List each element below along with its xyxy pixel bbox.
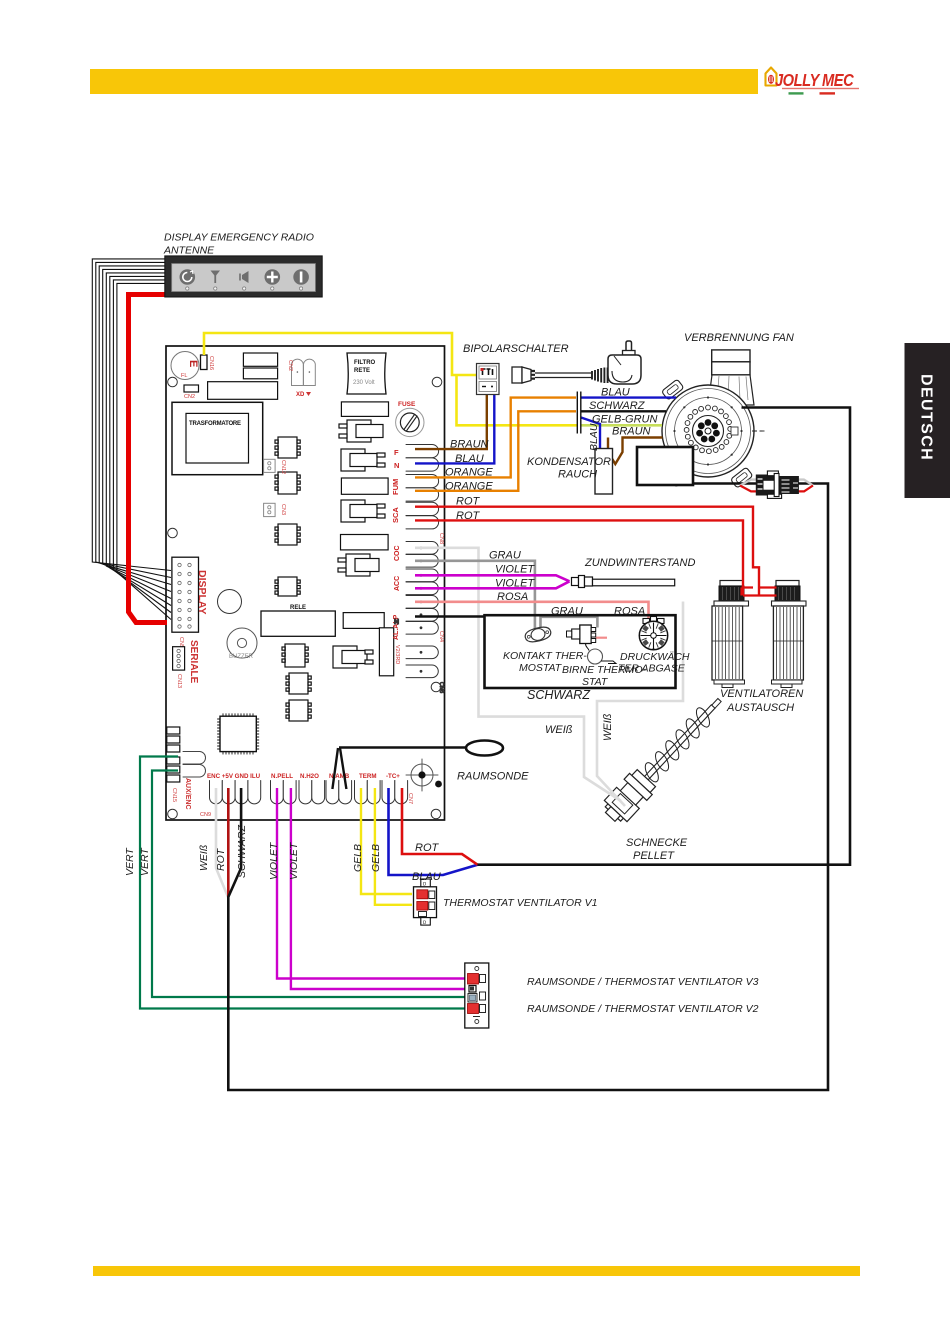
- svg-text:THERMOSTAT VENTILATOR V1: THERMOSTAT VENTILATOR V1: [443, 897, 597, 909]
- IC block 2: [243, 368, 277, 379]
- svg-text:KONDENSATOR: KONDENSATOR: [527, 456, 611, 468]
- schuko plug pin: [626, 341, 632, 353]
- labels COC ACC ALALP: [393, 545, 444, 642]
- wire raumsonde chevron: [332, 748, 346, 789]
- svg-text:SCHNECKE: SCHNECKE: [626, 837, 688, 849]
- svg-text:GELB: GELB: [370, 844, 382, 872]
- svg-text:BLAU: BLAU: [412, 871, 441, 883]
- svg-text:BLAU: BLAU: [455, 453, 484, 465]
- svg-text:VIOLET: VIOLET: [495, 564, 535, 576]
- combustion fan body: [661, 350, 766, 488]
- svg-text:BLAU: BLAU: [588, 423, 600, 451]
- svg-text:N: N: [394, 461, 399, 470]
- svg-text:CN6: CN6: [438, 682, 444, 693]
- svg-text:VERT: VERT: [124, 847, 136, 876]
- relay RL2: [341, 478, 388, 494]
- svg-text:AUX/ENC: AUX/ENC: [184, 778, 191, 810]
- connector CN9 terminal labels: [200, 773, 413, 818]
- relay RL5 box: [261, 611, 335, 636]
- panel button antenna: [211, 271, 221, 291]
- svg-text:VIOLET: VIOLET: [495, 577, 535, 589]
- svg-text:BUZZER: BUZZER: [229, 654, 254, 660]
- thermostat BIRNE: [567, 625, 617, 664]
- svg-text:N.AMB: N.AMB: [329, 773, 350, 780]
- igniter ZUNDWINTERSTAND: [572, 576, 675, 588]
- EXTERNAL COMPONENTS DRAWN UNDER WIRES: [599, 350, 806, 828]
- wire rot tc: [402, 788, 478, 865]
- room probe RAUMSONDE: [466, 741, 503, 756]
- svg-text:DRUCKWÄCH: DRUCKWÄCH: [620, 651, 690, 663]
- svg-text:CN12: CN12: [280, 460, 286, 474]
- svg-text:ZUNDWINTERSTAND: ZUNDWINTERSTAND: [584, 557, 695, 569]
- wire schwarz loop to frame: [228, 484, 828, 1091]
- svg-text:RAUCH: RAUCH: [558, 469, 597, 481]
- auger flange: [632, 770, 656, 793]
- wire earth yellow to fan: [457, 375, 578, 425]
- wire weiss 2 druckwachter to auger: [597, 602, 683, 807]
- fan bolt dots: [673, 396, 742, 465]
- fan terminal box: [637, 447, 693, 485]
- svg-text:COC: COC: [394, 545, 401, 561]
- connector CN14 aux sockets: [183, 752, 206, 810]
- svg-text:TRASFORMATORE: TRASFORMATORE: [189, 421, 241, 427]
- svg-text:BLAU: BLAU: [601, 387, 630, 399]
- svg-text:RAUMSONDE / THERMOSTAT VENTILA: RAUMSONDE / THERMOSTAT VENTILATOR V3: [527, 976, 759, 988]
- svg-text:ROSA: ROSA: [614, 606, 645, 618]
- optocoupler U8: [275, 577, 300, 596]
- svg-text:CN15: CN15: [171, 788, 177, 802]
- connector CN3: [264, 503, 286, 516]
- optocoupler U4: [275, 524, 300, 545]
- schuko plug body: [608, 355, 641, 384]
- svg-text:BRAUN: BRAUN: [450, 439, 489, 451]
- svg-text:GELB: GELB: [352, 844, 364, 872]
- footer yellow bar: [93, 1266, 860, 1276]
- svg-text:DEUTSCH: DEUTSCH: [918, 374, 935, 461]
- capacitor KONDENSATOR RAUCH: [595, 449, 613, 495]
- MAIN BOARD: [166, 346, 445, 820]
- mounting hole mid-left: [168, 528, 178, 538]
- svg-text:SCHWARZ: SCHWARZ: [589, 400, 646, 412]
- svg-text:XD: XD: [296, 392, 305, 398]
- logo JOLLY MEC: [766, 68, 860, 95]
- wire display power red: [129, 295, 168, 623]
- svg-text:ROT: ROT: [415, 842, 440, 854]
- connector CN8 right pins F N: [406, 445, 439, 529]
- svg-text:CN2: CN2: [287, 360, 293, 371]
- svg-text:N: N: [394, 619, 399, 626]
- logo house icon: [766, 68, 777, 86]
- svg-text:VIOLET: VIOLET: [268, 841, 280, 880]
- svg-text:ORANGE: ORANGE: [445, 480, 493, 492]
- wire rot SCA 2: [415, 520, 743, 595]
- mains cord inlet: [512, 341, 641, 384]
- svg-text:FUM: FUM: [391, 479, 400, 495]
- connector J5: [333, 646, 373, 668]
- svg-text:CN13: CN13: [176, 674, 182, 688]
- connector J1: [339, 420, 383, 442]
- svg-text:VIOLET: VIOLET: [288, 841, 300, 880]
- svg-text:ROT: ROT: [215, 847, 227, 871]
- panel button clock: [180, 269, 196, 290]
- fan volute circles: [662, 385, 754, 477]
- svg-text:WEIß: WEIß: [198, 845, 210, 871]
- mounting hole bottom-left: [168, 809, 178, 819]
- wire braun fan stub: [608, 438, 663, 465]
- svg-text:KONTAKT THER-: KONTAKT THER-: [503, 650, 587, 662]
- svg-text:FILTRO: FILTRO: [354, 360, 376, 366]
- mounting hole bottom-right: [431, 809, 441, 819]
- fan mounting tab bottom-left: [661, 466, 684, 487]
- wire vert 2: [152, 771, 466, 998]
- wire braun switch to board: [415, 395, 487, 450]
- svg-text:V2/3RD: V2/3RD: [394, 645, 400, 664]
- connector CN10: [264, 459, 286, 474]
- thermocouple trimmer CN7: [406, 759, 442, 791]
- wire schwarz box to connector: [693, 482, 756, 485]
- svg-text:VERT: VERT: [139, 847, 151, 876]
- wire blau switch to board: [415, 395, 494, 464]
- exchange fan motor M1: [712, 581, 749, 688]
- wire gelb-grun fan: [581, 424, 663, 427]
- svg-text:DISPLAY EMERGENCY RADIO: DISPLAY EMERGENCY RADIO: [164, 232, 314, 244]
- wire schwarz box stub: [415, 615, 485, 618]
- IC block 1: [243, 353, 277, 366]
- panel button plus: [265, 269, 281, 290]
- svg-text:WEIß: WEIß: [545, 724, 573, 736]
- fan axis tick: [752, 430, 766, 432]
- control board outline: [166, 346, 445, 820]
- wire orange 1: [415, 398, 576, 478]
- fan scroll housing: [708, 375, 754, 405]
- optocoupler U5: [282, 644, 308, 667]
- svg-text:CN3: CN3: [280, 504, 286, 515]
- svg-text:CN16: CN16: [208, 356, 214, 370]
- svg-text:CN9: CN9: [200, 812, 211, 818]
- microcontroller U1: [218, 714, 259, 754]
- svg-text:DISPLAY: DISPLAY: [196, 570, 208, 615]
- wire mains yellow from CN16: [204, 333, 477, 375]
- panel button speaker: [240, 271, 249, 290]
- auger spiral: [638, 703, 717, 786]
- relay RL4: [343, 613, 384, 629]
- terminal RAUMSONDE V3 V2: [465, 963, 489, 1028]
- connector J4: [338, 554, 379, 576]
- wire rot tail: [227, 788, 230, 897]
- svg-text:ROT: ROT: [456, 496, 481, 508]
- svg-text:TERM: TERM: [359, 773, 377, 780]
- panel button power: [293, 269, 309, 290]
- svg-text:GRAU: GRAU: [551, 606, 583, 618]
- svg-text:ENC +5V GND ILU: ENC +5V GND ILU: [207, 773, 261, 780]
- svg-text:N.H2O: N.H2O: [300, 773, 319, 780]
- transformer TRASFORMATORE: [172, 402, 263, 474]
- wire violet V3 2: [291, 788, 466, 989]
- svg-text:-TC+: -TC+: [386, 773, 400, 780]
- wire orange 2: [415, 411, 576, 491]
- regulator V2/3RD: [379, 628, 400, 676]
- connector CN13 seriale: [173, 640, 199, 688]
- wire grau to kontakt: [415, 561, 535, 629]
- wire rosa birne stub: [596, 637, 608, 639]
- svg-text:MOSTAT: MOSTAT: [519, 662, 563, 674]
- logo flag red: [820, 92, 836, 94]
- fan bearing ring: [684, 405, 732, 454]
- svg-text:N.PELL: N.PELL: [271, 773, 293, 780]
- svg-text:F: F: [394, 448, 399, 457]
- svg-text:RETE: RETE: [354, 368, 370, 374]
- relay RL3: [341, 535, 389, 550]
- connector CN15 aux pins: [167, 727, 180, 802]
- svg-text:FL: FL: [181, 373, 187, 379]
- DEUTSCH side tab: [905, 343, 950, 498]
- svg-text:230 Volt: 230 Volt: [353, 380, 375, 386]
- svg-text:BRAUN: BRAUN: [612, 426, 651, 438]
- connector CN6 right pins N: [394, 619, 444, 693]
- mounting hole mid-right: [431, 682, 441, 692]
- schwarz wire frame box: [485, 615, 676, 688]
- svg-text:ROT: ROT: [456, 510, 481, 522]
- optocoupler U3: [275, 472, 300, 494]
- display panel: [165, 256, 322, 297]
- wire rot motor terminals: [742, 588, 777, 596]
- mounting hole top-left: [168, 377, 178, 387]
- svg-text:PELLET: PELLET: [633, 850, 675, 862]
- svg-text:RELE: RELE: [290, 605, 306, 611]
- connector bars: [577, 392, 581, 434]
- thermostat KONTAKT: [524, 625, 552, 644]
- wire vert 1: [140, 757, 466, 1009]
- inline connector highlight: [740, 471, 813, 498]
- svg-text:SCA: SCA: [391, 507, 400, 523]
- wire gelb 2: [375, 788, 412, 905]
- capacitor E1: [171, 352, 199, 380]
- wire weiss tail: [216, 788, 228, 897]
- buzzer BZ1: [227, 628, 257, 660]
- pressure switch DRUCKWACHTER: [639, 617, 667, 651]
- wire violet V3 1: [277, 788, 466, 979]
- wire gelb 1: [361, 788, 412, 894]
- svg-text:VENTILATOREN: VENTILATOREN: [720, 688, 803, 700]
- logo tagline: [782, 88, 859, 89]
- fan outlet duct: [712, 350, 750, 362]
- svg-text:RAUMSONDE / THERMOSTAT VENTILA: RAUMSONDE / THERMOSTAT VENTILATOR V2: [527, 1003, 759, 1015]
- auger tip: [712, 699, 721, 709]
- plug strain relief: [592, 368, 608, 384]
- svg-text:ANTENNE: ANTENNE: [163, 245, 215, 257]
- connector CN5 display: [172, 557, 208, 648]
- svg-text:E: E: [187, 360, 199, 367]
- wire weiss 1 board to auger: [415, 548, 621, 801]
- connector J3: [341, 500, 385, 522]
- svg-text:ACC: ACC: [394, 576, 401, 591]
- svg-text:GRAU: GRAU: [489, 550, 521, 562]
- wire raumsonde lead: [339, 746, 466, 748]
- optocoupler U6: [286, 673, 311, 694]
- svg-text:CN8: CN8: [438, 533, 444, 544]
- header yellow bar: [90, 69, 758, 94]
- connector CN9 pin sockets: [210, 781, 408, 804]
- svg-text:RAUMSONDE: RAUMSONDE: [457, 771, 529, 783]
- wire blau capacitor: [581, 418, 600, 449]
- fan mounting tab bottom-right: [730, 467, 753, 488]
- svg-text:CN4: CN4: [438, 631, 444, 642]
- svg-text:STAT: STAT: [582, 676, 609, 688]
- switch BIPOLARSCHALTER: [477, 364, 500, 395]
- wire rosa to druckwachter: [415, 602, 649, 619]
- wire blau tc: [389, 788, 478, 875]
- wire bundle display flat cable: [92, 259, 171, 620]
- IC block 3 wide: [208, 382, 278, 400]
- relay RL1: [341, 402, 388, 417]
- svg-text:FUSE: FUSE: [398, 401, 416, 408]
- connector CN16: [201, 355, 215, 370]
- wire violet 2: [415, 581, 570, 588]
- gearmotor body: [605, 783, 643, 821]
- wire blau fan: [582, 396, 677, 398]
- fan hub: [693, 416, 724, 447]
- inline connector bodies: [756, 471, 799, 498]
- terminal THERMOSTAT V1: [414, 879, 437, 926]
- fan mounting tab top-left: [661, 379, 684, 400]
- svg-text:ORANGE: ORANGE: [445, 467, 493, 479]
- connector J2: [341, 449, 385, 471]
- logo flag green: [789, 92, 804, 94]
- wire grau kontakt to birne: [541, 617, 598, 629]
- wire schwarz fan: [582, 410, 667, 412]
- svg-text:GELB-GRUN: GELB-GRUN: [592, 414, 657, 426]
- svg-text:ROSA: ROSA: [497, 591, 528, 603]
- wire rot SCA 1: [415, 507, 759, 596]
- pellet auger motor: [599, 689, 731, 827]
- svg-text:CN2: CN2: [184, 394, 195, 400]
- wire schwarz fan loop: [478, 408, 851, 865]
- fuse F1: [396, 401, 424, 437]
- capacitor C9: [218, 590, 242, 614]
- connector CN4 right pins low: [406, 542, 438, 635]
- svg-text:BIPOLARSCHALTER: BIPOLARSCHALTER: [463, 343, 569, 355]
- svg-text:AUSTAUSCH: AUSTAUSCH: [726, 702, 794, 714]
- svg-text:WEIß: WEIß: [602, 713, 614, 741]
- svg-text:SCHWARZ: SCHWARZ: [527, 688, 590, 702]
- varistor pair CN2/AUX: [287, 359, 315, 398]
- svg-text:VERBRENNUNG FAN: VERBRENNUNG FAN: [684, 332, 794, 344]
- optocoupler U7: [286, 700, 311, 721]
- svg-text:SERIALE: SERIALE: [188, 640, 199, 684]
- exchange fan motor M2: [772, 581, 807, 688]
- labels F N FUM SCA: [391, 448, 444, 544]
- logo flame mark: [768, 75, 774, 84]
- resistor CN2: [184, 385, 199, 400]
- mounting hole top-right: [432, 377, 442, 387]
- optocoupler U2: [275, 437, 300, 458]
- svg-text:JOLLY MEC: JOLLY MEC: [775, 71, 854, 90]
- svg-text:SCHWARZ: SCHWARZ: [236, 825, 248, 878]
- wire violet 1: [415, 575, 570, 581]
- svg-text:TER ABGASE: TER ABGASE: [618, 663, 686, 675]
- filter FILTRO RETE: [347, 353, 386, 394]
- auger shaft: [645, 705, 715, 780]
